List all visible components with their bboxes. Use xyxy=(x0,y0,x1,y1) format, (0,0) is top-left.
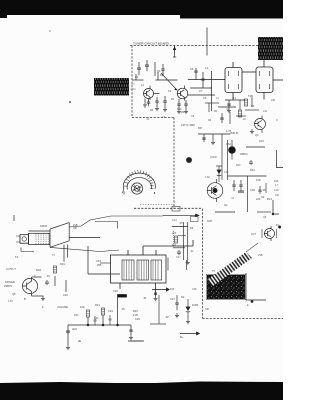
svg-text:330: 330 xyxy=(205,308,210,311)
svg-text:R7: R7 xyxy=(214,109,218,113)
svg-text:C25: C25 xyxy=(135,317,140,321)
svg-text:R4: R4 xyxy=(181,110,185,114)
svg-text:CF1: CF1 xyxy=(96,259,101,263)
svg-text:SPKR: SPKR xyxy=(40,224,47,228)
svg-text:1N60: 1N60 xyxy=(192,303,199,307)
svg-text:R20: R20 xyxy=(74,314,79,317)
svg-text:100: 100 xyxy=(275,194,280,197)
svg-text:186: 186 xyxy=(73,227,78,230)
svg-text:.01: .01 xyxy=(143,296,147,300)
svg-text:OUT: OUT xyxy=(251,233,257,236)
svg-text:C15: C15 xyxy=(259,139,264,143)
svg-text:RF: RF xyxy=(160,73,164,77)
svg-text:C1: C1 xyxy=(135,75,139,79)
svg-text:1.5K: 1.5K xyxy=(205,176,210,179)
svg-text:R21: R21 xyxy=(95,303,100,307)
svg-text:R14: R14 xyxy=(267,197,272,201)
svg-text:.02: .02 xyxy=(190,250,194,253)
svg-text:22K: 22K xyxy=(172,232,177,235)
svg-text:OSC: OSC xyxy=(131,87,137,91)
svg-text:C7: C7 xyxy=(199,89,203,93)
svg-text:C24: C24 xyxy=(108,309,113,313)
svg-text:C18: C18 xyxy=(250,188,255,192)
svg-text:C22: C22 xyxy=(63,293,68,297)
svg-text:AVC: AVC xyxy=(72,327,77,331)
svg-text:C16: C16 xyxy=(224,171,229,174)
svg-text:22K: 22K xyxy=(271,99,276,102)
svg-text:R15: R15 xyxy=(170,288,175,291)
svg-text:1ST IF AMP: 1ST IF AMP xyxy=(181,123,195,127)
svg-text:2.2K: 2.2K xyxy=(133,313,139,317)
svg-text:C11: C11 xyxy=(263,110,268,113)
svg-text:.05: .05 xyxy=(262,188,266,192)
svg-text:AMP: AMP xyxy=(207,220,213,223)
svg-text:D2: D2 xyxy=(181,295,185,299)
svg-text:.02: .02 xyxy=(165,315,169,319)
svg-text:CONV: CONV xyxy=(210,156,217,159)
svg-text:VOLUME: VOLUME xyxy=(57,305,68,309)
svg-text:-C3: -C3 xyxy=(131,82,136,86)
svg-text:R16: R16 xyxy=(274,180,279,183)
svg-text:C19: C19 xyxy=(274,189,279,192)
svg-text:C: C xyxy=(276,119,278,122)
svg-text:DRIVER: DRIVER xyxy=(5,280,15,284)
svg-text:Q4: Q4 xyxy=(224,203,228,207)
svg-text:R10: R10 xyxy=(236,164,241,167)
svg-text:2ND IF: 2ND IF xyxy=(230,131,239,135)
svg-text:B+: B+ xyxy=(180,335,184,339)
svg-text:C26: C26 xyxy=(192,288,197,291)
svg-text:OSC: OSC xyxy=(226,143,231,146)
svg-text:C20: C20 xyxy=(113,289,118,293)
svg-text:1K: 1K xyxy=(47,274,50,278)
svg-text:C9: C9 xyxy=(203,96,207,100)
svg-text:C: C xyxy=(34,275,36,278)
svg-text:1.5V: 1.5V xyxy=(8,300,13,303)
svg-text:C27: C27 xyxy=(170,297,175,301)
svg-text:C6: C6 xyxy=(190,67,194,71)
svg-text:2SB: 2SB xyxy=(258,254,263,257)
svg-text:R11: R11 xyxy=(172,244,177,247)
svg-text:Q3: Q3 xyxy=(255,133,259,137)
svg-text:C14: C14 xyxy=(172,219,177,222)
svg-text:Q5: Q5 xyxy=(12,292,16,296)
svg-text:C4: C4 xyxy=(168,89,172,93)
svg-text:455KC: 455KC xyxy=(240,152,248,156)
svg-text:680: 680 xyxy=(198,127,203,130)
svg-text:455: 455 xyxy=(97,263,102,267)
svg-text:B: B xyxy=(24,297,26,301)
svg-text:R18: R18 xyxy=(36,268,41,272)
svg-text:R22: R22 xyxy=(133,309,138,313)
svg-text:2SB75: 2SB75 xyxy=(4,284,12,288)
svg-text:TUNER CIRCUIT BOARD: TUNER CIRCUIT BOARD xyxy=(133,41,170,45)
svg-text:10K: 10K xyxy=(256,178,261,182)
svg-text:OUTPUT: OUTPUT xyxy=(6,268,16,271)
svg-text:R1: R1 xyxy=(150,108,154,112)
svg-text:Q1: Q1 xyxy=(157,69,161,73)
svg-text:10K: 10K xyxy=(80,305,85,309)
svg-text:.05: .05 xyxy=(179,222,183,225)
svg-text:R12: R12 xyxy=(250,168,255,172)
svg-text:C17: C17 xyxy=(176,256,181,259)
svg-text:1K: 1K xyxy=(243,117,246,121)
svg-text:NE: NE xyxy=(261,196,265,199)
svg-text:.05: .05 xyxy=(121,307,125,311)
svg-text:C23: C23 xyxy=(94,317,99,320)
svg-text:R19: R19 xyxy=(60,262,65,266)
